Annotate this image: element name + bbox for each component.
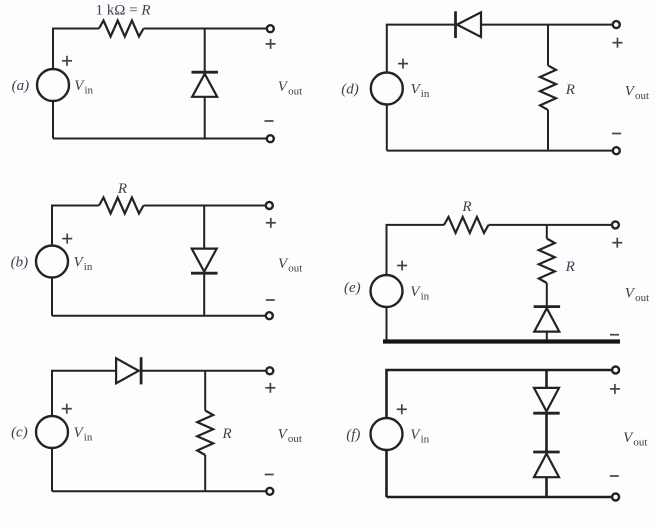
voltage source Vin (d)	[371, 73, 403, 105]
diode D (e) cathode bar	[534, 305, 561, 308]
wire bottom (c)	[52, 490, 266, 492]
diode D1 (f) cathode bar	[533, 412, 560, 415]
Vout label (d)	[625, 84, 649, 103]
+ polarity of source (c)	[62, 404, 72, 414]
Vout label (a)	[278, 79, 302, 98]
svg-text:out: out	[288, 433, 302, 445]
svg-text:in: in	[85, 85, 94, 97]
wire left rail bottom (a)	[52, 101, 54, 139]
output terminal - (a)	[267, 135, 274, 142]
wire diode to bottom (e)	[546, 332, 548, 342]
wire bottom (a)	[53, 138, 266, 140]
Vout label (f)	[623, 430, 647, 449]
+ polarity of source (f)	[397, 404, 407, 414]
svg-text:out: out	[635, 292, 649, 304]
- output polarity (c)	[265, 474, 274, 476]
- output polarity (e)	[610, 334, 619, 336]
svg-text:(b): (b)	[11, 255, 29, 271]
wire diode branch lower (b)	[203, 273, 205, 316]
Vin label (e)	[410, 284, 429, 303]
diode D (c) cathode bar	[140, 357, 143, 384]
wire left rail top (d)	[387, 25, 456, 73]
voltage source Vin (c)	[36, 416, 68, 448]
resistor R (b)	[99, 198, 144, 214]
svg-text:in: in	[421, 291, 430, 303]
shunt resistor R (e)	[539, 239, 555, 284]
Vin label (c)	[74, 425, 93, 444]
+ polarity of source (d)	[398, 59, 408, 69]
wire resistor branch upper (d)	[547, 25, 549, 66]
Vin label (b)	[74, 255, 93, 274]
svg-text:(d): (d)	[341, 81, 359, 97]
svg-text:(e): (e)	[344, 280, 361, 296]
thick bottom wire (e)	[383, 339, 620, 343]
+ output polarity (c)	[265, 383, 275, 393]
- output polarity (a)	[265, 120, 274, 122]
wire bottom (b)	[52, 315, 265, 317]
+ output polarity (b)	[266, 218, 276, 228]
resistor R (d)	[540, 65, 556, 110]
- output polarity (b)	[266, 299, 275, 301]
wire shunt branch upper (f)	[545, 370, 548, 388]
svg-text:in: in	[84, 261, 93, 273]
svg-text:(c): (c)	[11, 425, 28, 441]
diode D (d) cathode bar	[454, 11, 457, 38]
+ output polarity (f)	[610, 384, 620, 394]
svg-text:in: in	[421, 434, 430, 446]
output terminal + (a)	[267, 25, 274, 32]
svg-text:R: R	[565, 82, 575, 98]
output terminal + (f)	[612, 367, 619, 374]
Vin label (d)	[411, 82, 430, 101]
wire left rail top (e)	[387, 225, 445, 275]
series resistor R (e)	[444, 217, 489, 233]
+ polarity of source (b)	[62, 234, 72, 244]
wire left rail bottom (f)	[385, 450, 388, 497]
voltage source Vin (b)	[36, 246, 68, 278]
svg-text:(f): (f)	[346, 427, 360, 443]
wire between resistor and diode (e)	[546, 283, 548, 305]
output terminal - (d)	[613, 147, 620, 154]
voltage source Vin (e)	[371, 275, 403, 307]
wire diode to bottom (f)	[545, 477, 548, 497]
wire left rail bottom (b)	[51, 278, 53, 316]
svg-text:out: out	[633, 437, 647, 449]
wire diode branch upper (b)	[203, 206, 205, 249]
svg-text:out: out	[288, 86, 302, 98]
wire bottom (f)	[387, 496, 612, 499]
output terminal - (f)	[612, 494, 619, 501]
diode D1 (f) triangle	[534, 388, 559, 412]
wire top right (b)	[144, 205, 266, 207]
wire left rail top (a)	[53, 29, 99, 70]
svg-text:R: R	[565, 259, 575, 275]
wire top right (e)	[489, 224, 612, 226]
wire left rail top (b)	[52, 206, 99, 246]
svg-text:(a): (a)	[12, 78, 30, 94]
wire left rail bottom (c)	[51, 448, 53, 491]
svg-text:out: out	[635, 90, 649, 102]
wire diode branch lower (a)	[204, 97, 206, 139]
svg-text:in: in	[421, 88, 430, 100]
diode D (b) triangle	[192, 249, 217, 272]
svg-text:1 kΩ = R: 1 kΩ = R	[96, 2, 151, 18]
diode D (b) cathode bar	[191, 272, 218, 275]
diode D (e) triangle	[534, 308, 559, 331]
wire diode branch upper (a)	[204, 29, 206, 72]
diode D (a) cathode bar	[192, 71, 219, 74]
output terminal + (c)	[266, 367, 273, 374]
svg-text:out: out	[288, 263, 302, 275]
output terminal + (e)	[612, 221, 619, 228]
voltage source Vin (a)	[37, 69, 69, 101]
Vout label (b)	[278, 256, 302, 275]
output terminal + (b)	[266, 202, 273, 209]
voltage source Vin (f)	[371, 418, 403, 450]
wire left rail bottom (d)	[386, 105, 388, 151]
wire left rail top (c)	[52, 371, 116, 416]
diode D2 (f) cathode bar	[533, 451, 560, 454]
resistor R 1kohm (a)	[99, 21, 144, 37]
diode D2 (f) triangle	[534, 454, 559, 478]
wire resistor branch lower (c)	[204, 455, 206, 491]
Vout label (c)	[278, 427, 302, 446]
output terminal - (c)	[266, 488, 273, 495]
Vin label (f)	[410, 427, 429, 446]
wire left rail bottom (e)	[386, 307, 388, 342]
wire shunt branch upper (e)	[546, 225, 548, 239]
- output polarity (f)	[610, 475, 619, 477]
output terminal + (d)	[613, 21, 620, 28]
+ polarity of source (e)	[397, 261, 407, 271]
wire bottom (d)	[387, 150, 613, 152]
+ output polarity (d)	[613, 38, 623, 48]
svg-text:R: R	[222, 426, 232, 442]
+ output polarity (a)	[266, 39, 276, 49]
wire top right (a)	[144, 28, 267, 30]
svg-text:R: R	[461, 199, 471, 215]
diode D (a) triangle	[192, 74, 217, 97]
wire resistor branch upper (c)	[204, 371, 206, 411]
+ output polarity (e)	[612, 238, 622, 248]
wire between diodes (f)	[545, 413, 548, 452]
+ polarity of source (a)	[62, 56, 72, 66]
Vin label (a)	[74, 78, 93, 97]
wire left rail top (f)	[387, 370, 612, 418]
wire top right (d)	[481, 24, 612, 26]
diode D (d) triangle	[457, 12, 481, 37]
svg-text:in: in	[84, 432, 93, 444]
Vout label (e)	[625, 286, 649, 305]
- output polarity (d)	[612, 133, 621, 135]
wire resistor branch lower (d)	[547, 110, 549, 151]
resistor R (c)	[197, 411, 213, 456]
output terminal - (b)	[266, 312, 273, 319]
wire top right (c)	[141, 370, 266, 372]
diode D (c) triangle	[116, 358, 139, 383]
svg-text:R: R	[117, 181, 127, 197]
